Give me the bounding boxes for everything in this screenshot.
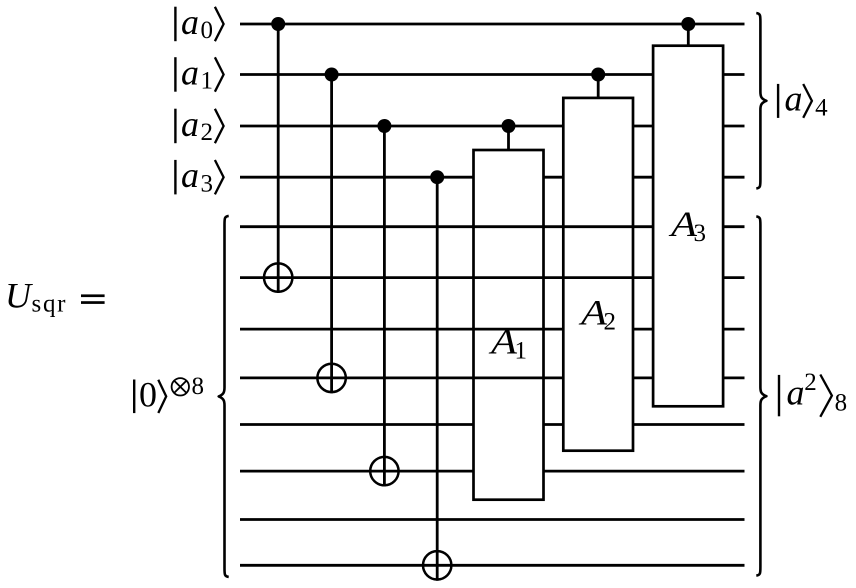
CNOT 4 control dot on a3 bbox=[430, 170, 444, 184]
wire b2 pass-through A1 bbox=[472, 276, 545, 279]
label U sqr equals bbox=[5, 276, 105, 318]
wire b1 pass-through A2 bbox=[562, 225, 634, 228]
control dot A1 on a2 bbox=[502, 119, 516, 133]
wire b3 bbox=[240, 328, 745, 331]
svg-text:sqr: sqr bbox=[32, 291, 67, 318]
gate box A1 bbox=[474, 150, 544, 500]
svg-text:2: 2 bbox=[604, 309, 617, 336]
svg-text:a: a bbox=[181, 155, 199, 195]
wire b4 bbox=[240, 376, 745, 379]
svg-text:a: a bbox=[181, 2, 199, 42]
CNOT 2 control dot on a1 bbox=[325, 68, 339, 82]
right brace for a squared register bbox=[756, 216, 766, 575]
gate box A3 bbox=[653, 46, 723, 407]
ket label a1 bbox=[175, 53, 223, 95]
wire b1 pass-through A1 bbox=[472, 225, 545, 228]
svg-text:2: 2 bbox=[804, 369, 817, 396]
CNOT 2 vertical a1 to b4 bbox=[330, 75, 333, 394]
svg-text:4: 4 bbox=[815, 94, 828, 121]
CNOT 1 control dot on a0 bbox=[271, 17, 285, 31]
CNOT 3 target on b6 bbox=[370, 457, 398, 485]
control stub A3 bbox=[687, 24, 690, 46]
ket label a0 bbox=[175, 2, 223, 44]
control stub A2 bbox=[597, 75, 600, 98]
svg-text:a: a bbox=[181, 53, 199, 93]
control stub A1 bbox=[507, 126, 510, 150]
CNOT 3 control dot on a2 bbox=[377, 119, 391, 133]
CNOT 3 vertical a2 to b6 bbox=[383, 126, 386, 487]
right brace for a register bbox=[756, 13, 766, 188]
svg-text:3: 3 bbox=[201, 170, 214, 197]
control dot A2 on a1 bbox=[591, 68, 605, 82]
svg-text:0: 0 bbox=[201, 17, 214, 44]
gate box A2 bbox=[563, 98, 633, 451]
svg-text:a: a bbox=[181, 104, 199, 144]
CNOT 1 vertical a0 to b2 bbox=[277, 24, 280, 293]
svg-text:1: 1 bbox=[515, 337, 528, 364]
wire b5 bbox=[240, 423, 745, 426]
wire a1 bbox=[240, 73, 745, 76]
wire a3 bbox=[240, 176, 745, 179]
wire b3 pass-through A1 bbox=[472, 328, 545, 331]
CNOT 4 target on b8 bbox=[423, 551, 451, 579]
ket label a3 bbox=[175, 155, 223, 197]
svg-text:2: 2 bbox=[201, 119, 214, 146]
svg-text:a: a bbox=[785, 78, 803, 118]
wire b8 bbox=[240, 564, 745, 567]
wire a2 bbox=[240, 125, 745, 128]
svg-text:0: 0 bbox=[139, 374, 157, 414]
svg-text:8: 8 bbox=[192, 373, 205, 400]
ket label a2 bbox=[175, 104, 223, 146]
wire a0 bbox=[240, 23, 745, 26]
ket label zero state bbox=[134, 373, 204, 414]
CNOT 2 target on b4 bbox=[317, 364, 345, 392]
ket label a squared 8 bbox=[779, 369, 847, 417]
ket label a 4 bbox=[778, 78, 828, 121]
svg-text:U: U bbox=[5, 276, 33, 316]
CNOT 4 vertical a3 to b8 bbox=[436, 177, 439, 581]
wire b2 bbox=[240, 276, 745, 279]
CNOT 1 target on b2 bbox=[264, 263, 292, 291]
wire b6 bbox=[240, 470, 745, 473]
left brace for zero register bbox=[219, 216, 229, 577]
svg-text:a: a bbox=[787, 373, 805, 413]
control dot A3 on a0 bbox=[681, 17, 695, 31]
wire b7 bbox=[240, 518, 745, 521]
wire b2 pass-through A2 bbox=[562, 276, 634, 279]
wire b4 pass-through A1 bbox=[472, 376, 545, 379]
svg-text:8: 8 bbox=[835, 389, 848, 416]
svg-text:3: 3 bbox=[694, 220, 707, 247]
wire b1 bbox=[240, 225, 745, 228]
svg-text:1: 1 bbox=[201, 68, 214, 95]
